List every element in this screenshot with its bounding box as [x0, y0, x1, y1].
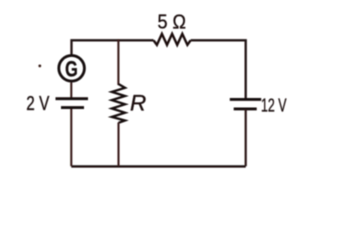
wire: middle branch top (junction to resistor R)	[117, 39, 119, 85]
ink speck	[38, 65, 41, 68]
battery 12V: long plate	[230, 98, 261, 101]
battery 2V: short plate	[61, 106, 84, 109]
wire: G to 2V battery	[70, 83, 72, 98]
galvanometer G	[59, 56, 85, 82]
svg-text:5 Ω: 5 Ω	[158, 12, 187, 34]
wire top-left: top-left corner to 5-ohm resistor	[72, 40, 154, 54]
wire left-bottom: 2V battery to bottom-left corner	[70, 108, 72, 166]
svg-text:G: G	[65, 56, 78, 81]
svg-text:2 V: 2 V	[26, 93, 49, 115]
svg-text:12 V: 12 V	[261, 94, 287, 115]
bottom wire	[71, 165, 245, 167]
battery 12V: short plate	[234, 107, 257, 110]
battery 2V: long plate	[56, 97, 89, 100]
wire top-right: resistor to top-right corner, down to 12V battery	[191, 40, 246, 98]
wire right-bottom: 12V battery to bottom-right corner	[245, 109, 247, 166]
resistor R (vertical zigzag)	[112, 84, 125, 123]
resistor 5 ohm (horizontal zigzag)	[154, 34, 191, 45]
svg-text:R: R	[130, 91, 146, 116]
wire: middle branch bottom (resistor R to bottom wire)	[117, 123, 119, 167]
